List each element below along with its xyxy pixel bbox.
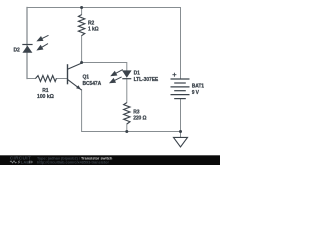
svg-text:9 V: 9 V [192, 90, 200, 96]
svg-text:BC547A: BC547A [83, 81, 102, 87]
svg-text:LTL-307EE: LTL-307EE [134, 77, 159, 83]
svg-text:D1: D1 [134, 70, 141, 76]
svg-text:220 Ω: 220 Ω [133, 116, 146, 122]
svg-text:1 kΩ: 1 kΩ [88, 27, 99, 33]
svg-text:R2: R2 [88, 20, 95, 26]
svg-text:D2: D2 [14, 47, 21, 53]
svg-text:R3: R3 [133, 110, 140, 116]
svg-text:http://circuitlab.com/c/x48593: http://circuitlab.com/c/x48593-transisto… [37, 161, 109, 165]
svg-text:BAT1: BAT1 [192, 83, 205, 89]
svg-text:R1: R1 [42, 88, 49, 94]
svg-text:LAB: LAB [21, 160, 30, 165]
svg-text:Q1: Q1 [83, 74, 90, 80]
svg-text:100 kΩ: 100 kΩ [37, 94, 55, 100]
